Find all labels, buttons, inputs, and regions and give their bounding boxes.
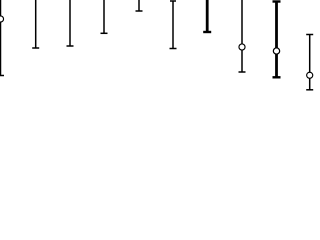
errorbar 6 bottom cap [170, 48, 177, 50]
errorbar 4 stem [103, 0, 105, 33]
errorbar 3 bottom cap [67, 45, 74, 47]
errorbar 1 stem [0, 0, 2, 76]
errorbar 10 marker [307, 72, 313, 78]
errorbar 3 stem [69, 0, 71, 46]
errorbar 2 bottom cap [32, 47, 39, 49]
errorbar 10 bottom cap [306, 89, 313, 91]
errorbar 5 stem [138, 0, 140, 11]
errorbar 9 bottom cap (thick) [273, 76, 281, 78]
errorbar 9 marker (thick) [273, 48, 279, 54]
errorbar 1 bottom cap [0, 75, 4, 77]
errorbar 7 bottom cap (thick) [203, 31, 211, 33]
errorbar 9 top cap (thick) [273, 0, 281, 2]
errorbar 6 top cap [170, 0, 176, 2]
errorbar 7 stem (thick) [206, 0, 209, 32]
errorbar 10 stem [309, 35, 311, 90]
errorbar 8 bottom cap [239, 71, 246, 73]
errorbar 5 bottom cap [136, 10, 143, 12]
errorbar 1 marker [0, 16, 4, 22]
errorbar 4 bottom cap [101, 32, 108, 34]
errorbar 8 marker [239, 44, 245, 50]
errorbar 8 stem [241, 0, 243, 72]
errorbar 10 top cap [306, 34, 313, 36]
errorbar 2 stem [35, 0, 37, 48]
errorbar 9 stem (thick) [275, 2, 278, 78]
errorbar 6 stem [172, 1, 174, 49]
